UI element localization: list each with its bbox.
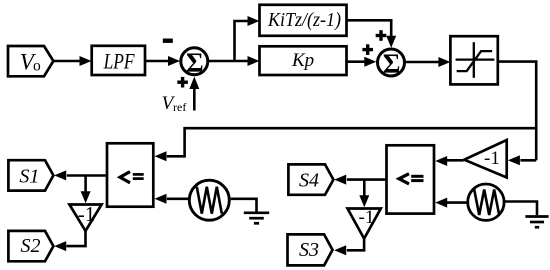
svg-text:Kp: Kp	[291, 50, 314, 71]
svg-text:Σ: Σ	[383, 49, 401, 79]
svg-text:-1: -1	[484, 148, 500, 169]
svg-text:S1: S1	[19, 166, 39, 188]
svg-text:ref: ref	[173, 100, 186, 114]
svg-text:S4: S4	[299, 170, 319, 192]
svg-text:KiTz/(z-1): KiTz/(z-1)	[267, 9, 341, 31]
svg-text:S3: S3	[299, 239, 319, 261]
svg-text:-1: -1	[359, 207, 375, 228]
svg-text:-1: -1	[78, 202, 96, 226]
svg-text:Σ: Σ	[186, 47, 204, 77]
svg-text:LPF: LPF	[103, 49, 135, 74]
svg-text:S2: S2	[21, 235, 41, 257]
svg-text:o: o	[33, 57, 41, 74]
